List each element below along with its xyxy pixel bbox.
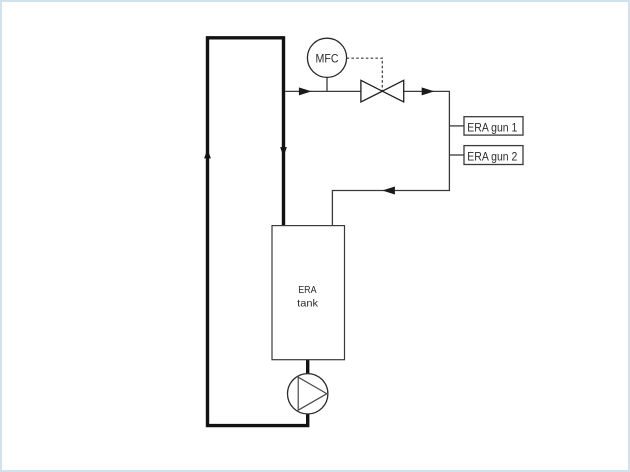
wire connector to ERA gun 2: [449, 154, 464, 156]
box ERA gun 1: [464, 117, 523, 135]
instrument MFC: [307, 38, 346, 77]
arrow down on right loop line: [280, 147, 287, 156]
wire thick circulation loop: [208, 38, 308, 426]
wire MFC stem: [326, 77, 328, 91]
box ERA gun 2: [464, 146, 523, 165]
wire connector to ERA gun 1: [449, 125, 464, 127]
svg-text:ERA gun 2: ERA gun 2: [467, 150, 517, 164]
wire supply pipe: loop to guns manifold: [285, 91, 449, 225]
svg-text:ERA: ERA: [298, 285, 316, 296]
wire pump outlet to tank bottom: [306, 360, 309, 374]
svg-text:tank: tank: [297, 299, 319, 310]
arrow right before MFC: [299, 87, 312, 95]
arrow left on return line: [382, 187, 395, 195]
dashed control line MFC to valve: [347, 58, 383, 90]
control valve: [361, 80, 404, 102]
svg-text:ERA gun 1: ERA gun 1: [467, 120, 517, 134]
svg-text:MFC: MFC: [316, 52, 339, 66]
arrow right after valve: [422, 87, 435, 95]
pump P1: [288, 374, 328, 414]
arrow up on left loop line: [204, 149, 211, 158]
box ERA tank: [272, 226, 345, 360]
